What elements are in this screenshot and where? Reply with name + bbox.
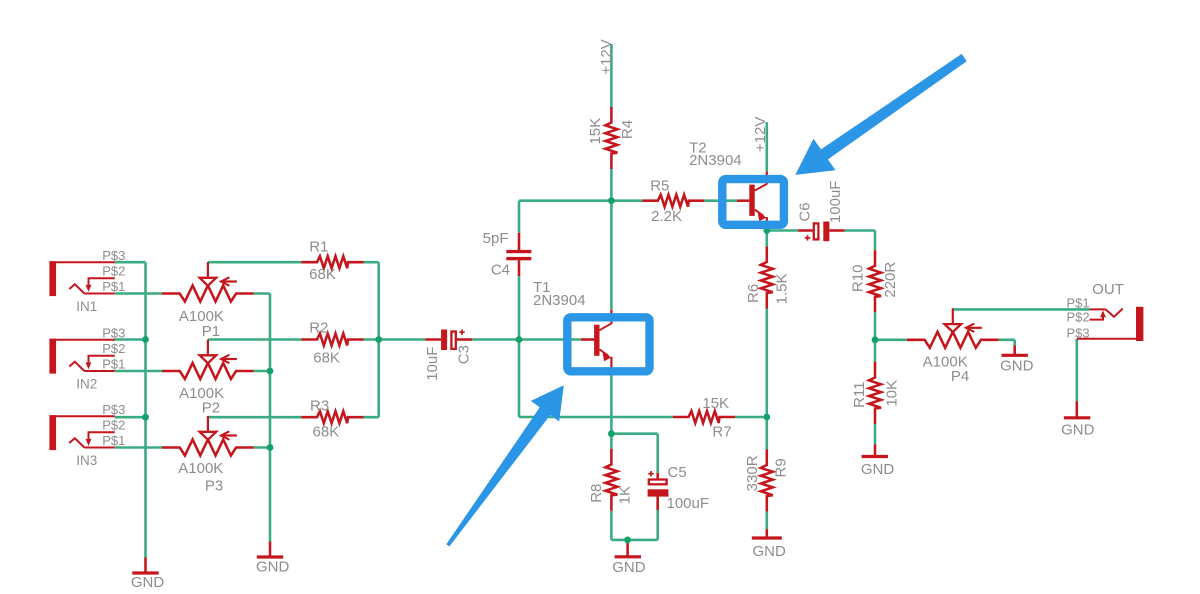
svg-text:GND: GND: [753, 543, 787, 560]
svg-text:C6: C6: [797, 202, 814, 221]
svg-text:R4: R4: [619, 120, 636, 139]
svg-text:68K: 68K: [313, 423, 340, 440]
svg-text:P$2: P$2: [102, 341, 125, 356]
svg-text:100uF: 100uF: [827, 181, 844, 224]
svg-text:P$2: P$2: [1066, 310, 1089, 325]
svg-text:P$2: P$2: [102, 264, 125, 279]
svg-text:1.5K: 1.5K: [773, 273, 790, 304]
svg-text:C3: C3: [456, 345, 473, 364]
svg-text:P$3: P$3: [102, 248, 125, 263]
svg-text:R10: R10: [850, 265, 867, 293]
svg-text:2N3904: 2N3904: [689, 152, 742, 169]
svg-text:10uF: 10uF: [424, 347, 441, 381]
svg-text:P3: P3: [205, 477, 223, 494]
svg-text:10K: 10K: [884, 380, 901, 407]
svg-text:100uF: 100uF: [667, 495, 710, 512]
svg-text:P2: P2: [202, 400, 220, 417]
svg-text:R3: R3: [310, 398, 329, 415]
svg-text:R8: R8: [588, 484, 605, 503]
svg-text:R2: R2: [309, 319, 328, 336]
svg-text:IN3: IN3: [76, 453, 97, 468]
svg-text:330R: 330R: [744, 455, 761, 491]
svg-text:+12V: +12V: [752, 117, 769, 152]
svg-text:R5: R5: [650, 178, 669, 195]
svg-text:1K: 1K: [617, 486, 634, 504]
svg-text:+12V: +12V: [598, 39, 615, 74]
svg-text:P1: P1: [202, 323, 220, 340]
svg-text:P$1: P$1: [102, 356, 125, 371]
svg-text:R6: R6: [745, 284, 762, 303]
svg-text:15K: 15K: [587, 118, 604, 145]
svg-text:R9: R9: [772, 458, 789, 477]
svg-text:15K: 15K: [702, 395, 729, 412]
svg-text:P4: P4: [951, 368, 969, 385]
svg-text:P$1: P$1: [102, 279, 125, 294]
svg-text:GND: GND: [1000, 358, 1034, 375]
svg-text:68K: 68K: [313, 350, 340, 367]
svg-text:R7: R7: [712, 424, 731, 441]
svg-text:IN1: IN1: [76, 299, 97, 314]
svg-text:68K: 68K: [309, 266, 336, 283]
svg-text:220R: 220R: [882, 262, 899, 298]
svg-text:GND: GND: [256, 559, 290, 576]
svg-text:2N3904: 2N3904: [533, 292, 586, 309]
svg-text:GND: GND: [612, 559, 646, 576]
svg-text:5pF: 5pF: [483, 230, 509, 247]
svg-text:P$3: P$3: [102, 325, 125, 340]
svg-text:OUT: OUT: [1092, 281, 1124, 298]
svg-text:GND: GND: [1061, 422, 1095, 439]
svg-text:GND: GND: [861, 461, 895, 478]
svg-text:2.2K: 2.2K: [651, 208, 682, 225]
svg-text:P$2: P$2: [102, 418, 125, 433]
svg-text:R1: R1: [309, 239, 328, 256]
svg-text:C4: C4: [491, 261, 510, 278]
svg-text:C5: C5: [668, 464, 687, 481]
svg-text:P$3: P$3: [1066, 326, 1089, 341]
svg-text:R11: R11: [851, 381, 868, 407]
svg-text:GND: GND: [131, 574, 165, 591]
svg-text:P$3: P$3: [102, 402, 125, 417]
svg-text:P$1: P$1: [1066, 295, 1089, 310]
svg-text:P$1: P$1: [102, 433, 125, 448]
svg-text:A100K: A100K: [178, 460, 223, 477]
svg-text:IN2: IN2: [76, 376, 97, 391]
